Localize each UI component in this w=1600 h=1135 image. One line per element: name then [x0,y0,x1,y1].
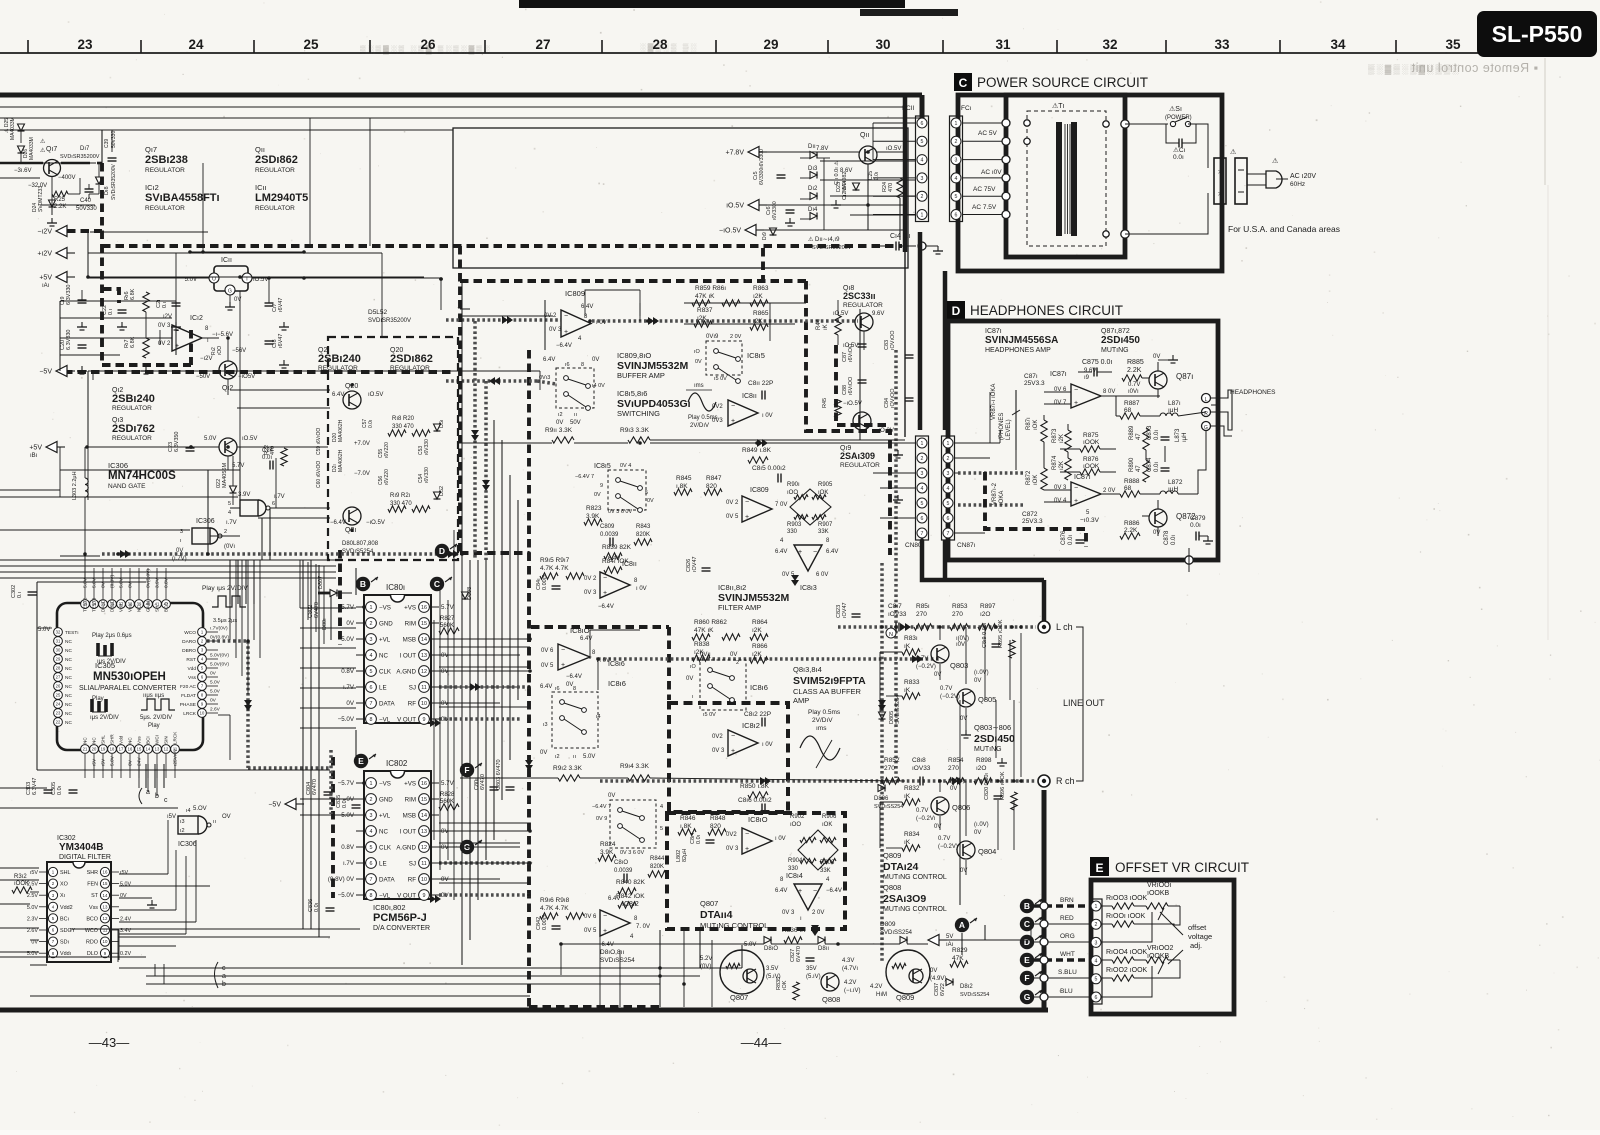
svg-text:11: 11 [421,685,427,691]
svg-text:IC809,8ıO: IC809,8ıO [617,351,651,360]
svg-text:SJ: SJ [409,684,416,691]
paper speckle noise [1022,27,1025,30]
svg-text:0V 2: 0V 2 [726,500,739,506]
dashed rail bottom [529,1005,663,1009]
sine wave [800,736,840,760]
svg-text:Vdd: Vdd [187,666,196,672]
svg-text:R907: R907 [818,522,833,528]
switch IC815 top [556,368,594,408]
R831 resistor [902,649,920,655]
svg-text:(ı.0V): (ı.0V) [974,670,989,676]
svg-text:FCı: FCı [961,105,972,112]
svg-text:820K: 820K [650,864,664,870]
svg-text:5.0V(0V): 5.0V(0V) [210,662,229,668]
hp jack fix [1217,398,1219,430]
svg-text:offset: offset [1188,923,1207,932]
svg-text:ı5V: ı5V [120,870,128,876]
svg-text:C803 6V470: C803 6V470 [496,759,502,790]
R889 resistor [1143,428,1149,450]
svg-text:10: 10 [103,939,108,944]
svg-text:ıms: ıms [816,725,827,732]
svg-text:ıO.5V: ıO.5V [726,203,744,210]
svg-text:+: + [564,329,568,336]
hatched line top bus [102,552,458,556]
R851 resistor [914,624,932,630]
svg-text:5: 5 [921,139,924,145]
svg-text:Q804: Q804 [978,847,996,856]
svg-text:−: − [1074,387,1078,394]
svg-text:a: a [222,973,226,980]
opamp IC809 top [561,310,591,337]
svg-text:R849 ı.8K: R849 ı.8K [742,447,772,454]
svg-text:2V/DıV: 2V/DıV [812,717,833,724]
svg-text:4: 4 [921,486,924,492]
C19 cap [78,299,87,301]
svg-text:c: c [222,965,226,972]
Q17 wires [0,162,43,165]
wire lrck [218,714,230,716]
headphone jack L node [1202,394,1211,403]
svg-text:LRCK: LRCK [173,731,178,744]
svg-text:12: 12 [421,845,427,851]
hatched vertical x475 [473,321,477,560]
svg-text:270: 270 [884,765,895,772]
R849 resistor [748,457,768,463]
R887 resistor [1120,413,1140,419]
svg-text:−: − [813,888,817,895]
muting bias wires [880,651,902,653]
svg-text:31: 31 [995,37,1011,52]
svg-text:LINE OUT: LINE OUT [1063,698,1105,708]
svg-text:IC8ıı: IC8ıı [742,393,757,400]
svg-text:+VL: +VL [379,636,391,643]
svg-text:DTAıı4: DTAıı4 [700,909,733,921]
svg-text:WHT: WHT [1060,951,1075,958]
svg-text:1: 1 [947,441,950,447]
svg-text:0.2V: 0.2V [120,951,131,957]
svg-text:D8ıO: D8ıO [764,946,778,952]
svg-text:2SBı238: 2SBı238 [145,154,188,166]
svg-text:(5.ıV): (5.ıV) [806,974,821,980]
svg-text:1: 1 [921,212,924,218]
waveform square [141,699,175,710]
svg-text:18: 18 [110,747,115,752]
R838 resistor [692,655,710,661]
C23 cap [186,447,195,449]
IC12 opamp [172,325,202,351]
svg-text:33: 33 [1214,37,1230,52]
svg-text:15: 15 [421,621,427,627]
YM right fan wires [119,873,168,875]
svg-text:6: 6 [370,685,373,691]
svg-text:0V: 0V [556,420,563,426]
svg-text:24: 24 [188,37,204,52]
svg-text:Q808: Q808 [822,995,840,1004]
svg-text:−5V: −5V [268,802,281,809]
C1 capacitor [1166,124,1179,143]
node D [435,544,449,558]
svg-text:0V: 0V [31,940,38,946]
svg-text:6: 6 [370,861,373,867]
svg-text:−5V: −5V [39,369,52,376]
svg-text:MA4033M: MA4033M [29,137,35,160]
svg-text:R845: R845 [676,475,692,482]
svg-text:SVDıSR35200V: SVDıSR35200V [111,163,117,200]
svg-text:BCI: BCI [146,736,151,744]
svg-text:6.8K: 6.8K [130,288,136,300]
svg-text:L ch: L ch [1056,622,1073,632]
svg-text:6V22: 6V22 [940,983,946,996]
svg-text:(0V): (0V) [700,964,711,970]
svg-text:R874: R874 [1052,455,1058,470]
svg-text:ı2K: ı2K [752,627,762,634]
svg-text:R85ı: R85ı [916,603,930,610]
svg-text:12: 12 [421,669,427,675]
svg-text:C874: C874 [1147,457,1153,472]
svg-text:RIM: RIM [405,620,416,627]
C835 cap [352,804,361,806]
hatched line IC809 out [592,319,858,323]
svg-text:0V: 0V [210,698,217,704]
R913 resistor [628,437,650,443]
C803 cap [506,786,515,788]
svg-text:0.7V: 0.7V [1128,382,1140,388]
main board right border upper [903,95,908,252]
Rch node [1038,775,1050,787]
svg-text:ı6VıOO: ı6VıOO [848,343,854,362]
C823 cap [852,613,861,615]
R832 resistor [902,799,920,805]
svg-text:IC306: IC306 [196,518,215,525]
svg-text:29: 29 [56,657,61,662]
svg-text:0V 3 6 0V: 0V 3 6 0V [608,509,632,515]
switch dashes extra [452,559,454,561]
svg-text:LM2940T5: LM2940T5 [255,192,308,204]
svg-text:WCI: WCI [155,735,160,744]
wire pin3 [1102,912,1152,942]
svg-text:−50V: −50V [196,374,210,380]
IC306 gate2 [192,528,210,544]
svg-text:Q87ı: Q87ı [1176,372,1193,381]
svg-text:ı5V: ı5V [101,758,107,766]
svg-text:4: 4 [660,804,663,810]
svg-text:A.GND: A.GND [396,668,416,675]
svg-text:0V: 0V [346,700,354,707]
svg-text:35: 35 [1445,37,1461,52]
svg-text:DATA: DATA [379,700,395,707]
svg-text:50V: 50V [570,420,581,426]
svg-text:SVDMTZ33: SVDMTZ33 [38,186,44,212]
svg-text:ICıı: ICıı [255,183,267,192]
svg-text:IC8ı2: IC8ı2 [622,901,639,908]
svg-text:6.3V330: 6.3V330 [66,330,72,351]
svg-text:MA4062H: MA4062H [338,449,344,472]
svg-text:−ıO.5V: −ıO.5V [719,228,741,235]
Q21 transistor [343,507,361,525]
R17 resistor [143,338,149,358]
svg-text:ICıı: ICıı [221,257,232,264]
svg-text:23: 23 [77,37,93,52]
svg-text:2SBı240: 2SBı240 [318,353,361,365]
svg-text:−5.0V: −5.0V [338,892,355,899]
connector CN871 [942,436,955,540]
svg-text:+VS: +VS [404,604,416,611]
svg-text:R840 82K: R840 82K [616,879,646,886]
switch IC816 right [700,660,746,710]
connector G [1020,990,1034,1004]
svg-text:D52: D52 [439,486,445,496]
svg-text:AC ı20V: AC ı20V [1290,173,1316,180]
svg-text:SHL: SHL [101,735,106,744]
svg-text:REGULATOR: REGULATOR [145,167,185,174]
wire SBLU [1034,977,1090,979]
svg-text:ıOOK: ıOOK [14,881,29,887]
svg-text:ı5 0V: ı5 0V [703,712,716,718]
svg-text:5.0V(0V): 5.0V(0V) [210,653,229,659]
svg-text:G: G [1024,992,1031,1002]
svg-text:D8ıO,8ıı: D8ıO,8ıı [600,949,624,956]
svg-text:ORG: ORG [1060,933,1075,940]
svg-text:+VS: +VS [404,780,416,787]
svg-text:6.4V: 6.4V [826,549,838,555]
svg-text:0V: 0V [1153,354,1160,360]
svg-text:R866: R866 [752,643,768,650]
svg-text:VRıOO2: VRıOO2 [1147,945,1174,952]
svg-text:R902: R902 [790,814,805,820]
wire ic810 feedback [590,630,640,659]
IC801 pin stubs right [439,638,530,640]
R863 resistor [750,300,768,306]
R823 resistor [584,519,602,525]
svg-text:R832: R832 [904,785,920,792]
R839 resistor [604,553,622,559]
svg-text:⚠Tı: ⚠Tı [1052,102,1065,110]
svg-text:R829: R829 [952,947,968,954]
hatched line vout801 [439,717,520,721]
svg-text:ı: ı [692,694,694,700]
D19 diode [770,228,777,235]
svg-text:+: + [1074,498,1078,505]
svg-text:NAND GATE: NAND GATE [108,483,146,490]
wire r911 row [460,442,552,444]
svg-text:ı6V47: ı6V47 [278,298,284,312]
R837 resistor [694,321,712,327]
R888 resistor [1120,491,1140,497]
svg-text:2SDı862: 2SDı862 [390,353,433,365]
offset connector strip [1090,899,1102,1004]
svg-text:−7.0V: −7.0V [354,471,370,477]
svg-text:TEST2: TEST2 [83,597,88,612]
svg-text:R854: R854 [948,757,964,764]
svg-text:FILTER AMP: FILTER AMP [718,603,761,612]
svg-text:0V: 0V [441,876,449,883]
IC801 DAC chip [364,595,431,723]
svg-text:0V2: 0V2 [726,832,737,838]
svg-text:4.3V: 4.3V [842,958,854,964]
svg-text:IC809: IC809 [750,487,769,494]
svg-text:6.3V350: 6.3V350 [174,432,180,453]
hatched line sj801 [439,685,530,689]
svg-text:SVDıSR35200V: SVDıSR35200V [368,318,411,324]
svg-text:ıO: ıO [694,349,701,355]
svg-text:5.0V: 5.0V [83,577,89,588]
node G [460,840,474,854]
svg-text:NC: NC [65,648,72,654]
svg-text:0V: 0V [566,682,573,688]
svg-text:0.7V: 0.7V [938,836,950,842]
line Lch to Rch [1020,633,1022,777]
svg-text:0V 3: 0V 3 [158,323,171,329]
svg-text:Q87ı,872: Q87ı,872 [1101,328,1130,335]
wire grid vertical [461,281,463,965]
svg-text:ı6: ı6 [555,686,560,692]
svg-text:−ıO.5V: −ıO.5V [366,520,385,526]
dashed rail x529 [527,350,531,1007]
svg-text:ıOK: ıOK [782,980,788,990]
svg-text:REGULATOR: REGULATOR [145,205,185,212]
svg-text:⚠Sı: ⚠Sı [1169,105,1182,113]
svg-text:25: 25 [56,693,61,698]
svg-text:ı.7V(0V): ı.7V(0V) [210,626,228,632]
svg-text:R876: R876 [1083,456,1099,463]
svg-text:ıBı: ıBı [30,453,38,459]
C87 cap [858,343,867,345]
power wire top [1125,123,1168,125]
svg-text:IC306: IC306 [108,461,128,470]
fc wires left [820,160,916,162]
svg-text:0V: 0V [930,968,937,974]
svg-text:R846: R846 [680,815,696,822]
svg-text:0V: 0V [594,492,601,498]
svg-text:29: 29 [763,37,778,52]
model tag SL-P550 [1477,11,1597,57]
svg-text:R9ı2 3.3K: R9ı2 3.3K [553,765,583,772]
dashed box dta114 [667,813,845,929]
opamp IC809 mid [742,496,772,522]
svg-text:SHR: SHR [110,734,115,744]
svg-text:R898: R898 [976,757,992,764]
wires left gate area [0,496,238,498]
svg-text:(−ı.ıV): (−ı.ıV) [844,988,861,994]
svg-text:NC: NC [65,666,72,672]
svg-text:MUTıNG CONTROL: MUTıNG CONTROL [883,874,947,881]
power wiring FC1 to T1 [962,122,1006,124]
wires MN right to bus [229,560,231,640]
transformer core lines [1064,124,1066,234]
svg-text:ııμs ııμs: ııμs ııμs [143,693,164,699]
svg-text:R847: R847 [706,475,722,482]
svg-text:−ıO.3V: −ıO.3V [875,428,894,434]
extra bus verticals [439,590,441,870]
svg-text:b: b [222,981,226,988]
svg-text:NC: NC [65,639,72,645]
svg-text:0V2: 0V2 [712,404,723,410]
R866 resistor [750,657,768,663]
svg-text:2.4V: 2.4V [120,916,131,922]
10.5V triangle [748,200,759,211]
svg-text:25V3.3: 25V3.3 [1022,518,1043,525]
svg-text:For U.S.A. and Canada areas: For U.S.A. and Canada areas [1228,224,1340,234]
svg-text:4.2V: 4.2V [844,980,856,986]
svg-text:5.0V: 5.0V [120,882,131,888]
svg-text:FCII: FCII [902,105,914,112]
node F [460,763,474,777]
bridge upper [790,489,831,525]
svg-text:SVDıSS254: SVDıSS254 [600,957,635,964]
svg-text:2: 2 [224,529,227,535]
svg-text:8: 8 [370,893,373,899]
svg-text:5.0V: 5.0V [204,436,216,442]
svg-text:R833: R833 [904,679,920,686]
svg-text:6: 6 [921,516,924,522]
thick wire FC1 down [943,271,948,430]
left diode D26 [18,146,25,153]
power rails right [868,229,905,231]
wire -10.5V [764,229,868,231]
svg-text:ı6V330: ı6V330 [424,467,430,483]
svg-text:—44—: —44— [741,1035,781,1050]
svg-text:ıı: ıı [213,819,216,825]
section C header square [954,73,972,91]
svg-text:28: 28 [56,666,61,671]
D52 diode [434,492,441,499]
svg-text:3.5μs 2μs: 3.5μs 2μs [213,618,237,624]
svg-text:−ıO5V: −ıO5V [238,374,255,380]
svg-text:NC: NC [379,828,388,835]
svg-text:ı6V220: ı6V220 [384,469,390,485]
svg-text:DIGITAL FILTER: DIGITAL FILTER [59,854,111,861]
R827 resistor [439,628,459,634]
svg-text:20: 20 [92,747,97,752]
opamp IC810 [558,644,590,670]
svg-text:0V: 0V [950,786,957,792]
svg-text:R839 82K: R839 82K [602,544,632,551]
svg-text:0V: 0V [686,676,693,682]
node C [430,577,444,591]
svg-text:TESTı: TESTı [65,630,79,636]
svg-text:R864: R864 [752,619,768,626]
wire q13 rail [300,446,328,448]
svg-text:MUTıNG: MUTıNG [1101,347,1129,354]
R890 resistor [1143,460,1149,482]
svg-text:2: 2 [921,194,924,200]
R25 resistor [52,191,68,197]
C817 cap [895,623,897,632]
svg-text:30: 30 [875,37,890,52]
svg-text:NC: NC [379,652,388,659]
R850 resistor [748,792,768,798]
svg-text:5.0V: 5.0V [27,905,38,911]
svg-text:MN530ıOPEH: MN530ıOPEH [93,671,166,683]
svg-text:2.2K: 2.2K [1127,367,1142,374]
svg-text:(ı.7V): (ı.7V) [172,556,187,562]
svg-text:(−0.2V): (−0.2V) [938,844,958,850]
svg-text:DALO: DALO [101,599,106,612]
svg-text:SHR: SHR [87,870,98,876]
svg-text:ı3: ı3 [180,819,185,825]
D807 diode [330,590,337,597]
svg-text:−6.4V 7: −6.4V 7 [592,804,611,810]
R312 resistor [12,887,32,893]
svg-text:23: 23 [56,711,61,716]
svg-text:SVDıSS254: SVDıSS254 [960,992,989,998]
R833 resistor [902,693,920,699]
C22 cap [118,309,127,311]
C827 cap [806,957,815,959]
svg-text:MUTıNG CONTROL: MUTıNG CONTROL [700,921,768,930]
svg-text:(ı.0V): (ı.0V) [974,822,989,828]
R1002 resistor [1102,977,1112,979]
